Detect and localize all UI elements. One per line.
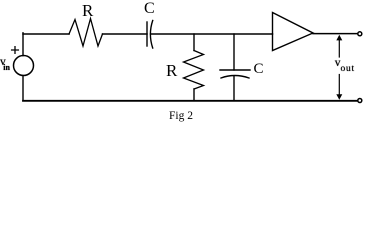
label vout bbox=[335, 59, 355, 74]
wire source bottom to ground rail bbox=[22, 76, 24, 101]
resistor R2 (shunt, vertical zigzag) bbox=[184, 51, 204, 90]
voltage source V1 circle bbox=[14, 56, 34, 76]
capacitor C1 (series) straight plate bbox=[146, 22, 148, 46]
wire capacitor to op-amp input (top rail right segment) bbox=[151, 33, 273, 35]
label vin bbox=[0, 58, 10, 72]
op-amp U1 buffer triangle bbox=[273, 13, 314, 51]
terminal top-right open circle bbox=[358, 32, 362, 36]
vout dimension down arrow bbox=[338, 75, 340, 97]
capacitor C2 (shunt) straight top plate bbox=[220, 69, 250, 71]
terminal bottom-right open circle bbox=[358, 99, 362, 103]
wire op-amp output to terminal bbox=[313, 33, 358, 35]
plus sign of source bbox=[12, 47, 19, 54]
label R of series resistor R1 bbox=[82, 4, 93, 17]
label R of shunt resistor R2 bbox=[166, 64, 177, 77]
wire resistor to capacitor bbox=[103, 33, 148, 35]
capacitor C1 curved plate bbox=[150, 21, 152, 49]
label C of shunt capacitor C2 bbox=[254, 64, 264, 75]
label C of series capacitor C1 bbox=[144, 3, 155, 15]
caption Fig 2 bbox=[169, 111, 193, 121]
node: R2 branch drop bbox=[193, 34, 195, 51]
wire top-left vertical from source to top rail bbox=[22, 33, 24, 56]
wire R2 to ground rail bbox=[193, 89, 195, 101]
resistor R1 (series, horizontal zigzag) bbox=[69, 19, 103, 46]
capacitor C2 curved bottom plate bbox=[221, 76, 249, 79]
wire bottom ground rail bbox=[23, 100, 358, 102]
wire top rail left segment bbox=[23, 33, 69, 35]
vout dimension up arrow bbox=[338, 38, 340, 57]
wire C2 to ground rail bbox=[233, 76, 235, 101]
node: C2 branch drop bbox=[233, 34, 235, 70]
